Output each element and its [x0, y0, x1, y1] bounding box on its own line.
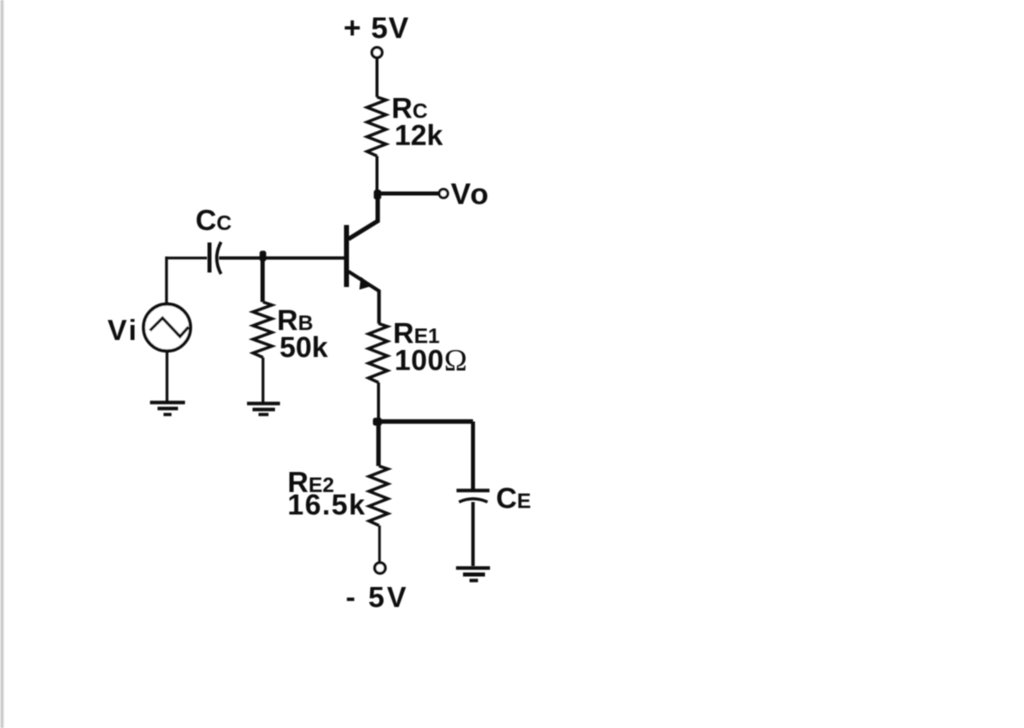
svg-text:- 5V: - 5V — [346, 582, 409, 614]
svg-text:Vo: Vo — [451, 178, 490, 211]
svg-text:16.5k: 16.5k — [288, 490, 367, 522]
svg-text:Vi: Vi — [108, 315, 139, 347]
svg-text:100Ω: 100Ω — [395, 342, 468, 377]
svg-text:50k: 50k — [280, 332, 329, 364]
svg-text:+ 5V: + 5V — [344, 12, 410, 45]
svg-text:12k: 12k — [395, 120, 444, 152]
